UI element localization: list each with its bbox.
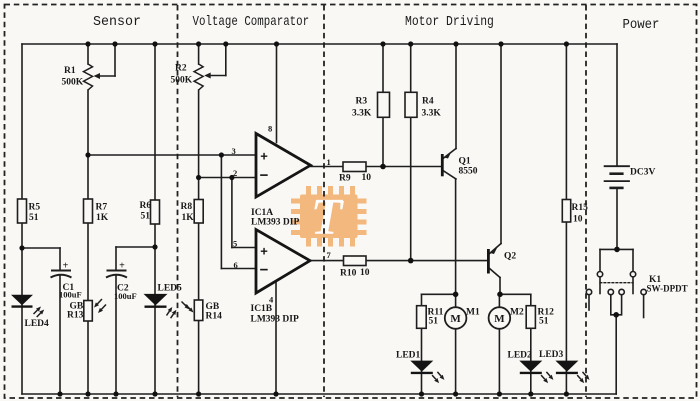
svg-text:100uF: 100uF: [59, 290, 82, 300]
svg-text:R6: R6: [140, 201, 152, 211]
svg-text:Voltage Comparator: Voltage Comparator: [193, 14, 310, 29]
svg-text:Sensor: Sensor: [93, 15, 141, 30]
svg-text:R10: R10: [340, 269, 357, 279]
svg-text:R15: R15: [572, 203, 589, 213]
svg-text:M1: M1: [466, 308, 480, 318]
svg-text:500K: 500K: [62, 78, 84, 88]
svg-text:R2: R2: [175, 64, 187, 74]
svg-text:100uF: 100uF: [114, 291, 137, 301]
svg-text:R8: R8: [181, 202, 193, 212]
svg-text:M: M: [450, 313, 461, 325]
svg-text:DC3V: DC3V: [630, 168, 655, 178]
svg-text:IC1B: IC1B: [251, 304, 273, 314]
svg-text:LED3: LED3: [539, 350, 564, 360]
svg-text:10: 10: [362, 173, 372, 183]
svg-text:51: 51: [429, 317, 439, 327]
svg-text:T: T: [311, 189, 345, 246]
svg-text:+: +: [260, 244, 268, 259]
svg-text:8: 8: [268, 124, 272, 134]
svg-text:M: M: [494, 313, 505, 325]
svg-text:3: 3: [232, 146, 236, 156]
svg-text:Q2: Q2: [504, 252, 516, 262]
svg-text:500K: 500K: [171, 76, 193, 86]
svg-text:R9: R9: [339, 174, 351, 184]
svg-text:LED1: LED1: [396, 351, 421, 361]
svg-text:2: 2: [233, 168, 237, 178]
svg-text:R3: R3: [356, 97, 368, 107]
svg-text:51: 51: [29, 213, 39, 223]
svg-text:LM393 DIP: LM393 DIP: [251, 315, 299, 325]
svg-text:M2: M2: [510, 308, 524, 318]
svg-text:−: −: [260, 262, 269, 279]
svg-text:51: 51: [141, 212, 151, 222]
svg-text:3.3K: 3.3K: [352, 109, 372, 119]
svg-text:R4: R4: [422, 97, 434, 107]
svg-text:10: 10: [573, 215, 583, 225]
svg-text:+: +: [119, 261, 125, 272]
svg-text:SW-DPDT: SW-DPDT: [647, 284, 688, 294]
svg-text:Power: Power: [623, 16, 660, 32]
svg-text:GB: GB: [206, 302, 220, 312]
svg-text:6: 6: [234, 260, 238, 270]
svg-text:10: 10: [360, 268, 370, 278]
svg-text:R13: R13: [67, 311, 84, 321]
svg-text:Motor Driving: Motor Driving: [405, 14, 494, 29]
svg-text:1K: 1K: [96, 213, 109, 223]
svg-text:5: 5: [233, 239, 237, 249]
svg-text:R1: R1: [64, 66, 76, 76]
svg-text:LM393 DIP: LM393 DIP: [251, 218, 299, 228]
svg-text:51: 51: [539, 317, 549, 327]
svg-text:8550: 8550: [459, 167, 478, 177]
svg-text:LED4: LED4: [25, 319, 50, 329]
svg-text:R7: R7: [96, 203, 108, 213]
svg-text:LED2: LED2: [508, 351, 533, 361]
svg-text:3.3K: 3.3K: [422, 109, 442, 119]
svg-text:LED5: LED5: [158, 284, 183, 294]
svg-text:+: +: [260, 149, 268, 164]
svg-text:−: −: [260, 167, 269, 184]
svg-text:1: 1: [327, 157, 331, 167]
svg-text:R14: R14: [206, 312, 223, 322]
svg-text:R5: R5: [29, 203, 41, 213]
svg-text:1K: 1K: [182, 213, 195, 223]
svg-text:IC1A: IC1A: [251, 208, 273, 218]
svg-text:+: +: [63, 261, 69, 272]
svg-text:Q1: Q1: [459, 157, 471, 167]
